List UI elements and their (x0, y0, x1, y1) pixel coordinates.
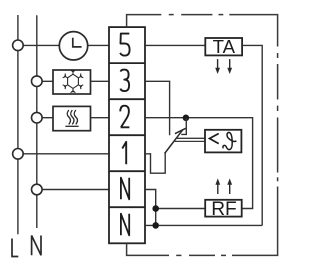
terminal 1 digit (122, 142, 126, 164)
node on N at row 3 (32, 76, 43, 87)
wire terminal N2 row to right side (145, 224, 262, 226)
node on L at row 5 (13, 40, 24, 51)
terminal 3 digit (120, 70, 129, 92)
wire L (phase, left vertical) (17, 15, 19, 234)
wire terminal 2 to right side down to RF (145, 118, 253, 209)
junction dot at RF row (152, 205, 159, 212)
wire terminal 1 to switch pole (145, 153, 165, 174)
wire row terminal N1 (N node to terminal N) (37, 189, 109, 191)
label L (12, 239, 18, 257)
node on N at row N1 (32, 184, 43, 195)
heating symbol (65, 110, 78, 126)
svg-text:RF: RF (211, 199, 237, 220)
mechanical link (double line) to thermostat (173, 138, 205, 141)
snowflake symbol (63, 70, 84, 93)
label N (32, 236, 41, 256)
wire TA to right side down to N2 row (242, 45, 262, 225)
enclosure border (dash-dot) (127, 15, 278, 256)
wire terminal 3 to switch contact A (145, 81, 170, 135)
TA arrows (down) (218, 59, 230, 69)
wire terminal N1 to vertical junction line (145, 190, 156, 226)
thermostat box U1 (205, 130, 241, 153)
wire junction line to RF (156, 208, 206, 210)
clock (time switch) (59, 32, 87, 60)
wire row terminal 1 (L node to terminal 1) (18, 153, 109, 155)
TA box (205, 38, 242, 55)
wire row terminal 5 (L to clock to terminal 5) (18, 44, 109, 46)
wire N (neutral, second vertical) (36, 15, 38, 228)
switch contact B stub (from junction down, foot left) (181, 118, 186, 135)
switch S1 lever (165, 128, 186, 153)
terminal block X1 (109, 27, 145, 243)
junction dot at N2 row (152, 222, 159, 229)
terminal N2 letter (121, 214, 129, 236)
junction dot on terminal 2 wire (183, 115, 190, 122)
terminal 5 digit (120, 34, 129, 56)
node on N at row 2 (32, 112, 43, 123)
thermostat symbol: script theta (223, 132, 236, 149)
RF box (205, 200, 242, 217)
svg-text:TA: TA (213, 36, 236, 57)
RF arrows (up) (218, 184, 230, 194)
wire row terminal 2 (N node to heating box to terminal 2) (37, 117, 109, 119)
wire terminal 5 to TA (145, 44, 205, 46)
terminal 2 digit (120, 106, 129, 128)
wire row terminal 3 (N node to cooling box to terminal 3) (37, 80, 109, 82)
thermostat symbol: less-than (210, 134, 219, 144)
cooling box (snowflake) (53, 70, 91, 94)
node on L at row 1 (13, 149, 24, 160)
terminal N1 letter (121, 178, 129, 200)
heating box (heat waves) (53, 106, 91, 130)
